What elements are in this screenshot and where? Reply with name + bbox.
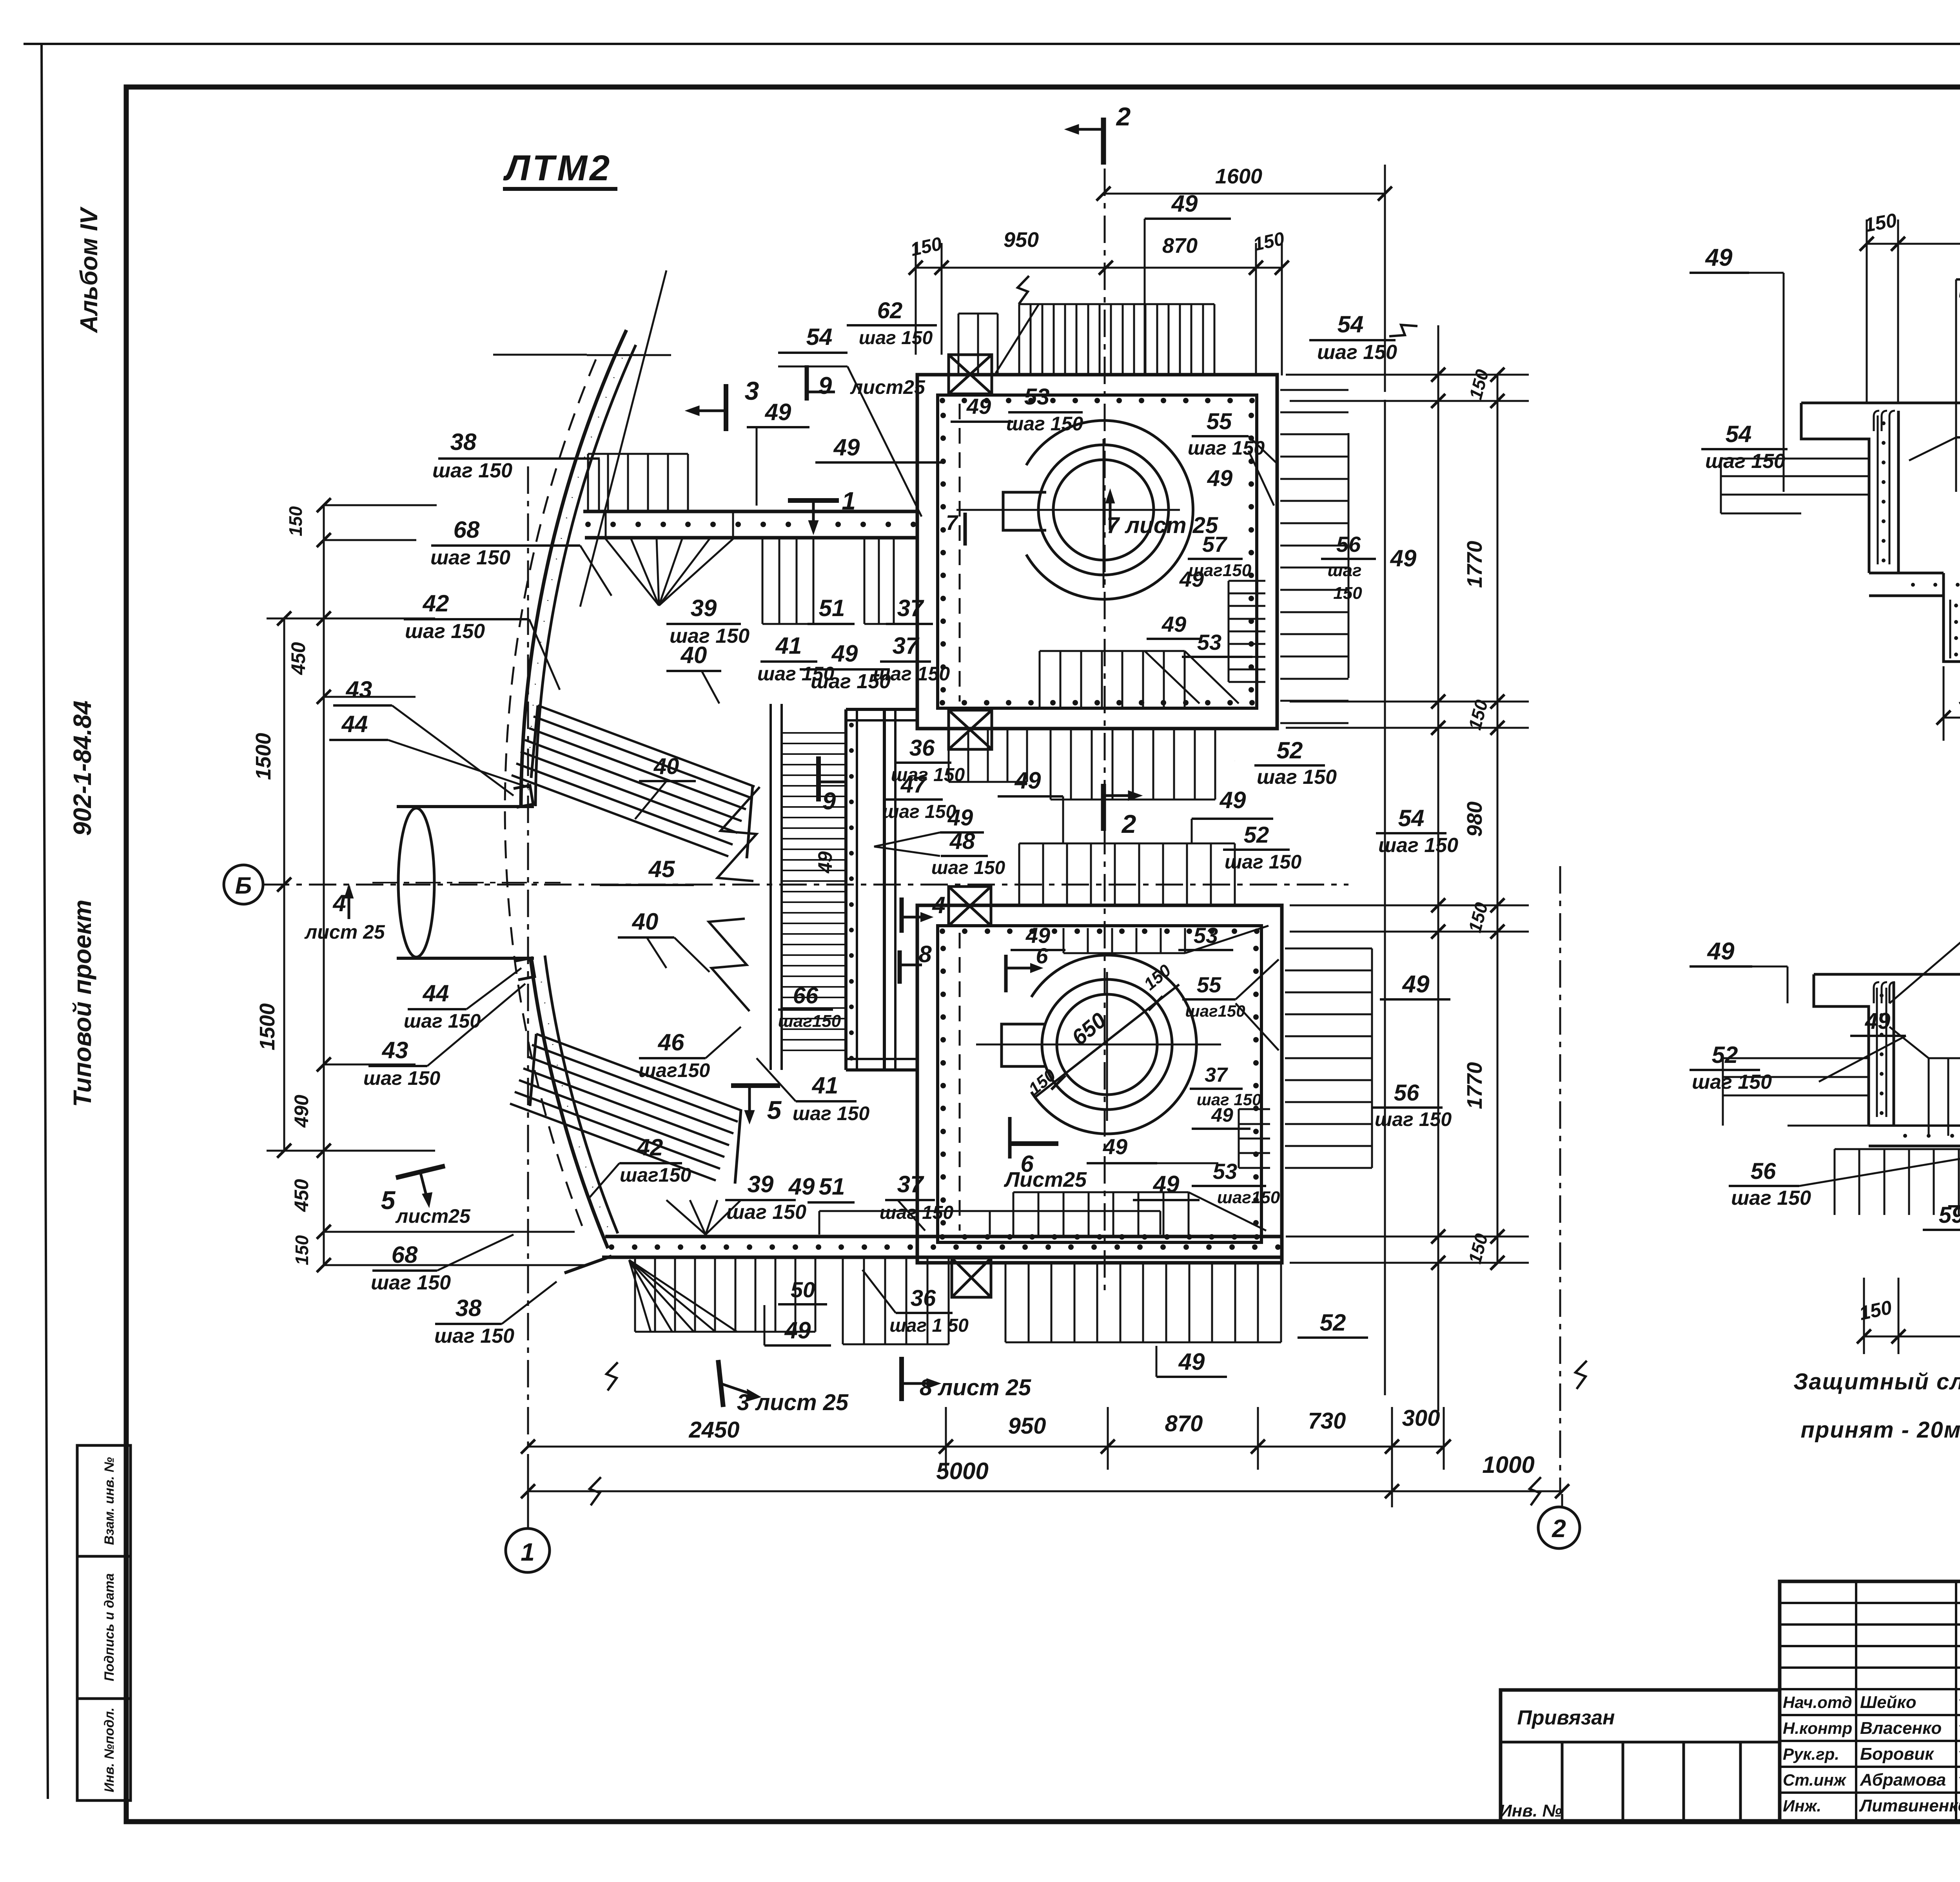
svg-text:1500: 1500 <box>256 1003 279 1050</box>
svg-text:1500: 1500 <box>252 733 275 780</box>
svg-text:59: 59 <box>1939 1202 1960 1228</box>
top wall exterior comb <box>1018 304 1020 373</box>
lower chamber corner brace top-left <box>949 887 991 926</box>
svg-text:7: 7 <box>946 511 959 535</box>
svg-text:3: 3 <box>745 376 759 405</box>
axis 2 dash-dot line <box>1559 866 1561 1494</box>
svg-text:37: 37 <box>897 1171 924 1197</box>
svg-text:1770: 1770 <box>1463 1062 1486 1109</box>
svg-text:шаг 150: шаг 150 <box>859 328 933 348</box>
svg-text:шаг150: шаг150 <box>620 1164 691 1186</box>
left curved outer wall lower segment <box>530 957 608 1248</box>
svg-text:Инв. №подл.: Инв. №подл. <box>102 1708 117 1793</box>
svg-text:шаг150: шаг150 <box>639 1059 710 1081</box>
svg-text:Привязан: Привязан <box>1517 1706 1615 1729</box>
svg-text:52: 52 <box>1320 1309 1346 1336</box>
svg-text:49: 49 <box>1865 1008 1891 1034</box>
svg-text:49: 49 <box>1390 545 1417 571</box>
svg-text:49: 49 <box>1707 938 1735 965</box>
bottom dimension 5000-1000 <box>528 1490 1562 1492</box>
svg-text:Б: Б <box>235 872 252 899</box>
svg-text:870: 870 <box>1165 1411 1203 1436</box>
svg-text:шаг 150: шаг 150 <box>405 620 485 643</box>
svg-text:шаг 150: шаг 150 <box>404 1010 481 1032</box>
upper chamber opening circle outer <box>1038 445 1169 575</box>
section 2 cut line <box>1104 121 1106 1293</box>
lower chamber interior top comb <box>1063 928 1065 953</box>
svg-text:52: 52 <box>1712 1042 1738 1068</box>
upper chamber right exterior comb <box>1280 389 1348 391</box>
svg-text:49: 49 <box>1014 767 1041 794</box>
top wall leader break <box>1018 276 1029 304</box>
svg-text:36: 36 <box>911 1285 936 1311</box>
svg-text:49: 49 <box>788 1173 815 1200</box>
svg-text:39: 39 <box>691 595 717 621</box>
section 2-2 bottom comb <box>1834 1149 1836 1215</box>
section 1-1 wall rebar strokes <box>1877 415 1879 564</box>
svg-text:2450: 2450 <box>688 1417 739 1443</box>
svg-text:68: 68 <box>454 517 480 543</box>
flume end bracket lower-left <box>515 958 535 980</box>
top-left band upper comb <box>587 454 589 510</box>
lower chamber wall rebar dots <box>940 928 945 934</box>
stair shaft bottom cap <box>846 1058 917 1060</box>
section 2 top flag <box>1101 118 1106 165</box>
right extension horizontals <box>1286 374 1529 376</box>
svg-text:66: 66 <box>793 983 818 1008</box>
svg-text:4: 4 <box>932 892 945 918</box>
dimension 1600 <box>1103 193 1385 195</box>
svg-text:980: 980 <box>1463 801 1486 837</box>
svg-text:принят - 20мм.: принят - 20мм. <box>1800 1417 1960 1443</box>
callout 5 list25 left <box>396 1166 445 1178</box>
svg-text:1000: 1000 <box>1482 1452 1534 1478</box>
upper chamber center crosslines <box>1103 439 1105 588</box>
svg-text:шаг 150: шаг 150 <box>1378 834 1458 857</box>
svg-text:Боровик: Боровик <box>1860 1744 1935 1764</box>
inlet pipe <box>397 805 534 808</box>
sheet outer border left <box>42 44 48 1799</box>
svg-text:2: 2 <box>1552 1514 1566 1543</box>
svg-text:шаг 150: шаг 150 <box>1692 1071 1772 1093</box>
upper flume teeth <box>717 787 760 881</box>
svg-text:42: 42 <box>423 590 449 616</box>
svg-text:лист 25: лист 25 <box>304 921 385 943</box>
band lower fan 39 <box>606 539 659 606</box>
svg-text:44: 44 <box>341 711 368 737</box>
svg-text:шаг 150: шаг 150 <box>1317 341 1397 364</box>
svg-text:9: 9 <box>822 788 836 815</box>
lower chamber top exterior comb <box>1018 843 1020 905</box>
inlet pipe end ellipse <box>398 808 434 957</box>
lower chamber surround arc <box>1031 955 1196 1134</box>
lower chamber inner wall <box>938 926 1261 1242</box>
section 1 flag left <box>788 498 839 503</box>
section 2-2 channel outline <box>1814 974 1869 1126</box>
upper chamber opening circle inner <box>1053 460 1154 560</box>
svg-text:Защитный слой бетона до ра: Защитный слой бетона до рабочей арматуры <box>1793 1369 1960 1394</box>
svg-text:56: 56 <box>1394 1080 1419 1106</box>
svg-text:902-1-84.84: 902-1-84.84 <box>68 700 96 836</box>
svg-text:шаг 150: шаг 150 <box>430 546 510 569</box>
lower flume teeth <box>709 919 750 1011</box>
svg-text:730: 730 <box>1308 1408 1346 1434</box>
svg-text:54: 54 <box>1398 805 1425 831</box>
section 2-2 interior comb 57 <box>1928 1058 1930 1136</box>
axis 1 circle <box>506 1528 550 1572</box>
svg-text:450: 450 <box>287 642 309 675</box>
svg-text:56: 56 <box>1336 532 1361 557</box>
svg-text:Рук.гр.: Рук.гр. <box>1783 1745 1839 1763</box>
section 2-2 left ledge lines <box>1723 1057 1869 1059</box>
svg-text:1770: 1770 <box>1463 541 1486 588</box>
svg-text:55: 55 <box>1207 409 1232 434</box>
svg-text:57: 57 <box>1202 532 1228 557</box>
svg-text:шаг 150: шаг 150 <box>1705 450 1785 473</box>
section 2 bottom flag <box>1101 784 1106 831</box>
svg-text:шаг: шаг <box>1327 561 1361 580</box>
svg-text:2: 2 <box>1121 809 1136 838</box>
svg-text:Литвиненко: Литвиненко <box>1859 1796 1960 1815</box>
svg-text:1: 1 <box>521 1538 535 1566</box>
svg-text:47: 47 <box>900 772 927 798</box>
svg-text:38: 38 <box>456 1295 482 1321</box>
svg-text:8: 8 <box>918 941 932 967</box>
bottom break marks <box>606 1362 618 1391</box>
top-left wall band <box>583 510 917 513</box>
section 3 flag top <box>724 384 728 431</box>
svg-text:49: 49 <box>784 1317 811 1344</box>
svg-text:39: 39 <box>748 1171 774 1197</box>
left curved wall rebar dots upper <box>528 348 627 790</box>
stair shaft top cap <box>846 708 917 711</box>
title block attachment table <box>1501 1690 1780 1822</box>
callout 3 list 25 bottom <box>718 1360 723 1407</box>
callout 8 list 25 bottom <box>899 1357 904 1401</box>
lower chamber right exterior comb <box>1285 948 1372 950</box>
svg-text:52: 52 <box>1277 737 1303 763</box>
svg-text:49: 49 <box>831 640 858 667</box>
upper diagonal flume slabs <box>538 705 755 787</box>
inlet pipe centerline <box>372 882 561 883</box>
lower diagonal flume slabs <box>536 1034 742 1111</box>
svg-text:49: 49 <box>1207 466 1233 491</box>
bottom wall band <box>605 1235 1282 1238</box>
section 1-1 left ledge lines <box>1721 458 1869 460</box>
svg-text:52: 52 <box>1244 822 1269 848</box>
svg-text:6: 6 <box>1036 943 1048 968</box>
svg-text:лист25: лист25 <box>850 376 926 398</box>
section 2-2 rebar hooks <box>1874 982 1879 1003</box>
svg-text:37: 37 <box>1205 1064 1228 1086</box>
svg-text:7 лист 25: 7 лист 25 <box>1107 513 1218 538</box>
svg-text:41: 41 <box>775 633 802 659</box>
svg-text:49: 49 <box>947 805 973 830</box>
svg-text:Подпись и дата: Подпись и дата <box>102 1573 117 1681</box>
svg-text:шаг 150: шаг 150 <box>873 663 950 685</box>
svg-text:Альбом IV: Альбом IV <box>76 206 103 334</box>
svg-text:шаг 1 50: шаг 1 50 <box>889 1315 969 1336</box>
right vertical extension line A <box>1384 400 1386 1395</box>
svg-text:5: 5 <box>767 1095 782 1124</box>
svg-text:5: 5 <box>381 1186 396 1215</box>
svg-text:50: 50 <box>791 1277 815 1302</box>
upper chamber inner wall <box>938 395 1257 708</box>
svg-text:1600: 1600 <box>1215 165 1262 188</box>
svg-text:53: 53 <box>1024 384 1050 410</box>
svg-text:3 лист 25: 3 лист 25 <box>737 1390 849 1415</box>
svg-text:лист25: лист25 <box>395 1205 471 1227</box>
svg-text:55: 55 <box>1197 972 1221 997</box>
svg-text:54: 54 <box>1726 421 1752 447</box>
svg-text:5000: 5000 <box>936 1458 988 1484</box>
svg-text:42: 42 <box>637 1134 663 1160</box>
svg-text:Нач.отд: Нач.отд <box>1783 1693 1852 1712</box>
section 2-2 bottom dims 150-1100-670-150 <box>1864 1336 1960 1338</box>
svg-text:46: 46 <box>658 1029 684 1055</box>
svg-text:Типовой проект: Типовой проект <box>68 899 96 1107</box>
svg-text:150: 150 <box>285 506 306 536</box>
svg-text:51: 51 <box>819 595 845 621</box>
section 2-2 wall rebar strokes <box>1876 988 1878 1117</box>
bottom dimension chain 2450-950-870-730-300 <box>528 1446 1444 1448</box>
svg-text:375: 375 <box>1959 687 1960 710</box>
left extension lines <box>325 504 437 506</box>
svg-text:Н.контр: Н.контр <box>1783 1719 1852 1737</box>
right vertical dimension line C <box>1497 375 1499 1263</box>
lower chamber wall niche <box>1002 1024 1046 1066</box>
svg-text:40: 40 <box>632 908 659 935</box>
upper chamber wall rebar dots <box>940 398 945 403</box>
svg-text:49: 49 <box>1103 1134 1127 1159</box>
svg-text:37: 37 <box>897 595 924 621</box>
left dimension chain 1500-1500 <box>283 618 285 1151</box>
svg-text:шаг 150: шаг 150 <box>363 1067 440 1089</box>
title block signatures table <box>1780 1581 1960 1822</box>
left curved wall dashed form line <box>505 357 597 1226</box>
left curved outer wall upper segment <box>521 330 626 806</box>
svg-text:49: 49 <box>1705 244 1733 271</box>
svg-text:53: 53 <box>1197 630 1221 655</box>
svg-text:44: 44 <box>423 980 449 1006</box>
svg-text:49: 49 <box>1220 787 1246 813</box>
upper chamber corner brace bottom-left <box>949 710 992 749</box>
svg-text:49: 49 <box>1211 1104 1233 1126</box>
sheet outer border top <box>24 43 1960 45</box>
svg-text:36: 36 <box>909 735 935 761</box>
left curved inner wall upper segment <box>535 345 636 806</box>
svg-text:шаг150: шаг150 <box>1217 1188 1280 1207</box>
svg-text:шаг 150: шаг 150 <box>432 459 512 482</box>
svg-text:Власенко: Власенко <box>1860 1719 1942 1738</box>
left curved inner wall lower segment <box>545 956 618 1233</box>
svg-text:62: 62 <box>877 298 903 323</box>
svg-text:150: 150 <box>1333 584 1362 603</box>
section 1-1 rebar hooks top <box>1874 411 1879 431</box>
right vertical extension line B <box>1437 375 1439 1263</box>
stair shaft right wall <box>844 709 848 1070</box>
bottom wall exterior combs <box>634 1259 636 1332</box>
svg-text:49: 49 <box>1178 1349 1205 1375</box>
section 1-1 beam hatch left <box>1949 600 1951 658</box>
axis B circle <box>224 865 263 904</box>
svg-text:40: 40 <box>681 642 707 668</box>
svg-text:шаг 150: шаг 150 <box>726 1201 806 1224</box>
callout 7 list 25 upper chamber <box>1109 494 1112 530</box>
stair shaft second wall <box>883 709 886 1070</box>
svg-text:Шейко: Шейко <box>1860 1693 1916 1712</box>
svg-text:1: 1 <box>842 487 856 515</box>
svg-text:150: 150 <box>292 1235 312 1265</box>
section 2-2 top slab line <box>1814 973 1960 976</box>
svg-text:шаг 150: шаг 150 <box>882 801 956 822</box>
svg-text:300: 300 <box>1402 1405 1440 1431</box>
svg-text:38: 38 <box>450 429 477 455</box>
axis 2 circle <box>1538 1507 1580 1548</box>
lower chamber opening circle inner <box>1057 994 1157 1095</box>
margin stamp table <box>77 1445 131 1800</box>
svg-text:43: 43 <box>346 676 372 703</box>
axis B dash-dot line <box>262 884 1348 886</box>
dimension chain 150-950-870-150 top <box>916 267 1282 269</box>
band comb 37 <box>864 539 866 624</box>
section flags 4 8 6 small <box>900 897 904 933</box>
svg-text:8 лист 25: 8 лист 25 <box>920 1375 1031 1400</box>
svg-text:шаг 150: шаг 150 <box>1225 851 1301 873</box>
stair shaft left stringer <box>769 704 772 1070</box>
band comb 51 <box>762 539 764 624</box>
svg-text:870: 870 <box>1162 234 1198 257</box>
upper chamber surround arc <box>1026 421 1193 599</box>
svg-text:шаг 150: шаг 150 <box>793 1102 869 1124</box>
lower chamber interior ladder <box>1239 1108 1270 1110</box>
sloped wall bottom-left <box>564 1256 612 1273</box>
svg-text:шаг 150: шаг 150 <box>434 1325 514 1347</box>
svg-text:Инв. №: Инв. № <box>1499 1801 1562 1820</box>
svg-text:Лист25: Лист25 <box>1004 1168 1087 1191</box>
section 5 flag mid <box>731 1083 780 1088</box>
svg-text:68: 68 <box>392 1242 418 1268</box>
svg-text:49: 49 <box>833 434 860 461</box>
svg-text:Абрамова: Абрамова <box>1860 1770 1946 1790</box>
lower chamber edge dashed line <box>959 933 961 1231</box>
upper chamber edge dashed line <box>959 404 961 702</box>
section 1-1 top slab line <box>1801 402 1960 404</box>
lower chamber opening circle outer <box>1042 979 1172 1110</box>
svg-text:49: 49 <box>814 851 836 874</box>
svg-text:Ст.инж: Ст.инж <box>1783 1771 1847 1789</box>
svg-text:49: 49 <box>1153 1171 1180 1197</box>
section 9 flag mid <box>816 756 821 801</box>
svg-text:шаг 150: шаг 150 <box>1958 281 1960 303</box>
upper chamber interior ladder comb <box>1229 580 1265 582</box>
svg-text:45: 45 <box>648 856 675 882</box>
svg-text:49: 49 <box>1402 971 1430 998</box>
svg-text:40: 40 <box>653 754 679 779</box>
svg-text:56: 56 <box>1751 1159 1776 1184</box>
lower chamber outer wall <box>917 905 1282 1263</box>
svg-text:шаг 150: шаг 150 <box>931 858 1005 878</box>
upper chamber outer wall <box>917 375 1277 729</box>
left dimension chain 150-450 <box>323 505 325 1265</box>
svg-text:ЛТМ2: ЛТМ2 <box>503 148 612 188</box>
section 1-1 channel outline <box>1801 403 1869 573</box>
svg-text:49: 49 <box>1171 190 1198 217</box>
svg-text:шаг 150: шаг 150 <box>1375 1108 1452 1130</box>
upper chamber interior bottom comb <box>1039 651 1041 707</box>
svg-text:49: 49 <box>966 394 991 419</box>
svg-text:4: 4 <box>332 890 346 916</box>
svg-text:шаг 150: шаг 150 <box>757 663 834 685</box>
svg-text:37: 37 <box>893 633 920 659</box>
svg-text:51: 51 <box>819 1173 845 1200</box>
svg-text:Инж.: Инж. <box>1783 1797 1821 1815</box>
svg-text:43: 43 <box>382 1037 408 1063</box>
lower chamber interior bottom comb <box>1013 1192 1014 1235</box>
svg-text:950: 950 <box>1004 228 1039 252</box>
section 1-1 bottom dims 375-325-325-150 <box>1944 717 1960 719</box>
svg-text:шаг 150: шаг 150 <box>371 1271 451 1294</box>
svg-text:49: 49 <box>1161 612 1186 636</box>
upper chamber bottom exterior comb <box>1050 730 1052 800</box>
svg-text:53: 53 <box>1194 923 1218 948</box>
svg-text:490: 490 <box>290 1095 312 1128</box>
svg-text:54: 54 <box>806 324 833 350</box>
svg-text:2: 2 <box>1116 102 1131 131</box>
lower chamber diagonal dimension 650 <box>1035 985 1179 1097</box>
upper chamber wall niche <box>1003 492 1046 530</box>
svg-text:49: 49 <box>765 399 791 425</box>
svg-text:Взам. инв. №: Взам. инв. № <box>102 1457 117 1545</box>
svg-text:шаг 150: шаг 150 <box>1257 766 1337 789</box>
section 1-1 top dimension chain <box>1867 243 1960 245</box>
stair treads <box>782 732 846 734</box>
axis 1 dash-dot line <box>527 466 529 1470</box>
svg-text:450: 450 <box>290 1179 312 1212</box>
upper chamber corner brace top-left <box>949 355 992 394</box>
svg-text:48: 48 <box>949 829 975 854</box>
lower chamber corner brace bottom-left <box>952 1258 991 1297</box>
svg-text:49: 49 <box>1179 567 1204 591</box>
upper-left slab edge line <box>587 354 671 356</box>
callout 4 list 25 axis B <box>348 887 350 919</box>
svg-text:шаг150: шаг150 <box>778 1012 841 1031</box>
svg-text:41: 41 <box>812 1072 838 1099</box>
lower chamber center crosslines <box>1106 972 1108 1121</box>
svg-text:54: 54 <box>1338 311 1364 337</box>
flume end bracket upper-left <box>514 785 533 807</box>
svg-text:шаг 150: шаг 150 <box>1006 413 1083 435</box>
svg-text:950: 950 <box>1008 1413 1046 1439</box>
svg-text:шаг 150: шаг 150 <box>1731 1187 1811 1209</box>
left curved wall rebar dots lower <box>539 968 608 1227</box>
svg-text:9: 9 <box>818 372 832 399</box>
